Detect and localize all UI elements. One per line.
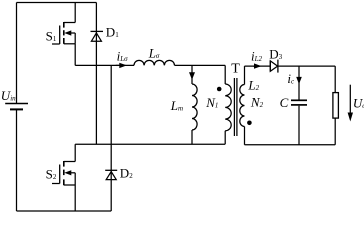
svg-text:D2: D2 bbox=[120, 166, 133, 181]
wire bottom rail bbox=[17, 210, 112, 212]
transistor S2 bbox=[52, 144, 75, 185]
diode D2 bbox=[105, 65, 117, 211]
wire L_sigma to N1 bbox=[175, 64, 226, 66]
svg-text:iL2: iL2 bbox=[251, 48, 263, 63]
capacitor C top plate bbox=[291, 99, 307, 101]
wire S2 source to bottom rail bbox=[74, 185, 76, 211]
wire capacitor branch lower bbox=[298, 106, 300, 145]
wire node A horizontal bbox=[75, 64, 134, 66]
wire secondary bottom rail bbox=[245, 144, 336, 146]
wire secondary top bbox=[245, 65, 271, 67]
wire S1 source to node A bbox=[74, 44, 76, 66]
svg-text:L2: L2 bbox=[247, 77, 259, 92]
svg-text:D1: D1 bbox=[106, 25, 119, 40]
polarity dot N1 bbox=[217, 87, 222, 92]
transformer secondary N2 bbox=[240, 66, 245, 145]
battery U_in short plate bbox=[10, 108, 23, 110]
svg-text:N1: N1 bbox=[205, 95, 218, 110]
transformer primary N1 bbox=[225, 65, 231, 144]
transformer core line left bbox=[233, 78, 235, 136]
svg-text:ic: ic bbox=[287, 71, 295, 86]
wire node B horizontal bbox=[75, 143, 225, 145]
svg-text:Lσ: Lσ bbox=[148, 46, 160, 61]
arrow U_o bbox=[348, 85, 353, 122]
svg-text:Uin: Uin bbox=[1, 88, 16, 103]
wire capacitor branch upper with arrow i_c bbox=[296, 66, 302, 100]
wire D3 to load bbox=[278, 65, 335, 67]
inductor L_sigma bbox=[134, 60, 174, 65]
svg-text:T: T bbox=[231, 61, 240, 76]
diode D3 bbox=[270, 60, 278, 73]
wire left rail lower bbox=[16, 109, 18, 211]
transistor S1 bbox=[52, 3, 75, 45]
svg-text:S1: S1 bbox=[46, 29, 57, 44]
svg-text:S2: S2 bbox=[46, 166, 57, 181]
transformer core line right bbox=[236, 78, 238, 136]
current arrow i_L2 bbox=[253, 65, 256, 67]
wire left rail upper bbox=[16, 3, 18, 104]
current arrow i_Ls bbox=[116, 64, 120, 66]
battery U_in long plate bbox=[5, 103, 28, 105]
diode D1 bbox=[91, 3, 104, 145]
svg-text:Lm: Lm bbox=[170, 98, 183, 113]
polarity dot N2 bbox=[247, 121, 252, 126]
inductor Lm with down arrow bbox=[189, 65, 197, 144]
svg-text:D3: D3 bbox=[269, 46, 282, 61]
svg-text:N2: N2 bbox=[250, 95, 264, 110]
wire top rail bbox=[17, 2, 97, 4]
resistor load bbox=[333, 93, 339, 119]
wire load branch upper bbox=[334, 66, 336, 93]
svg-text:C: C bbox=[280, 95, 289, 110]
wire load branch lower bbox=[334, 118, 336, 145]
svg-text:Uo: Uo bbox=[353, 96, 364, 111]
capacitor C bottom plate bbox=[291, 104, 307, 106]
svg-text:iLσ: iLσ bbox=[117, 48, 129, 63]
